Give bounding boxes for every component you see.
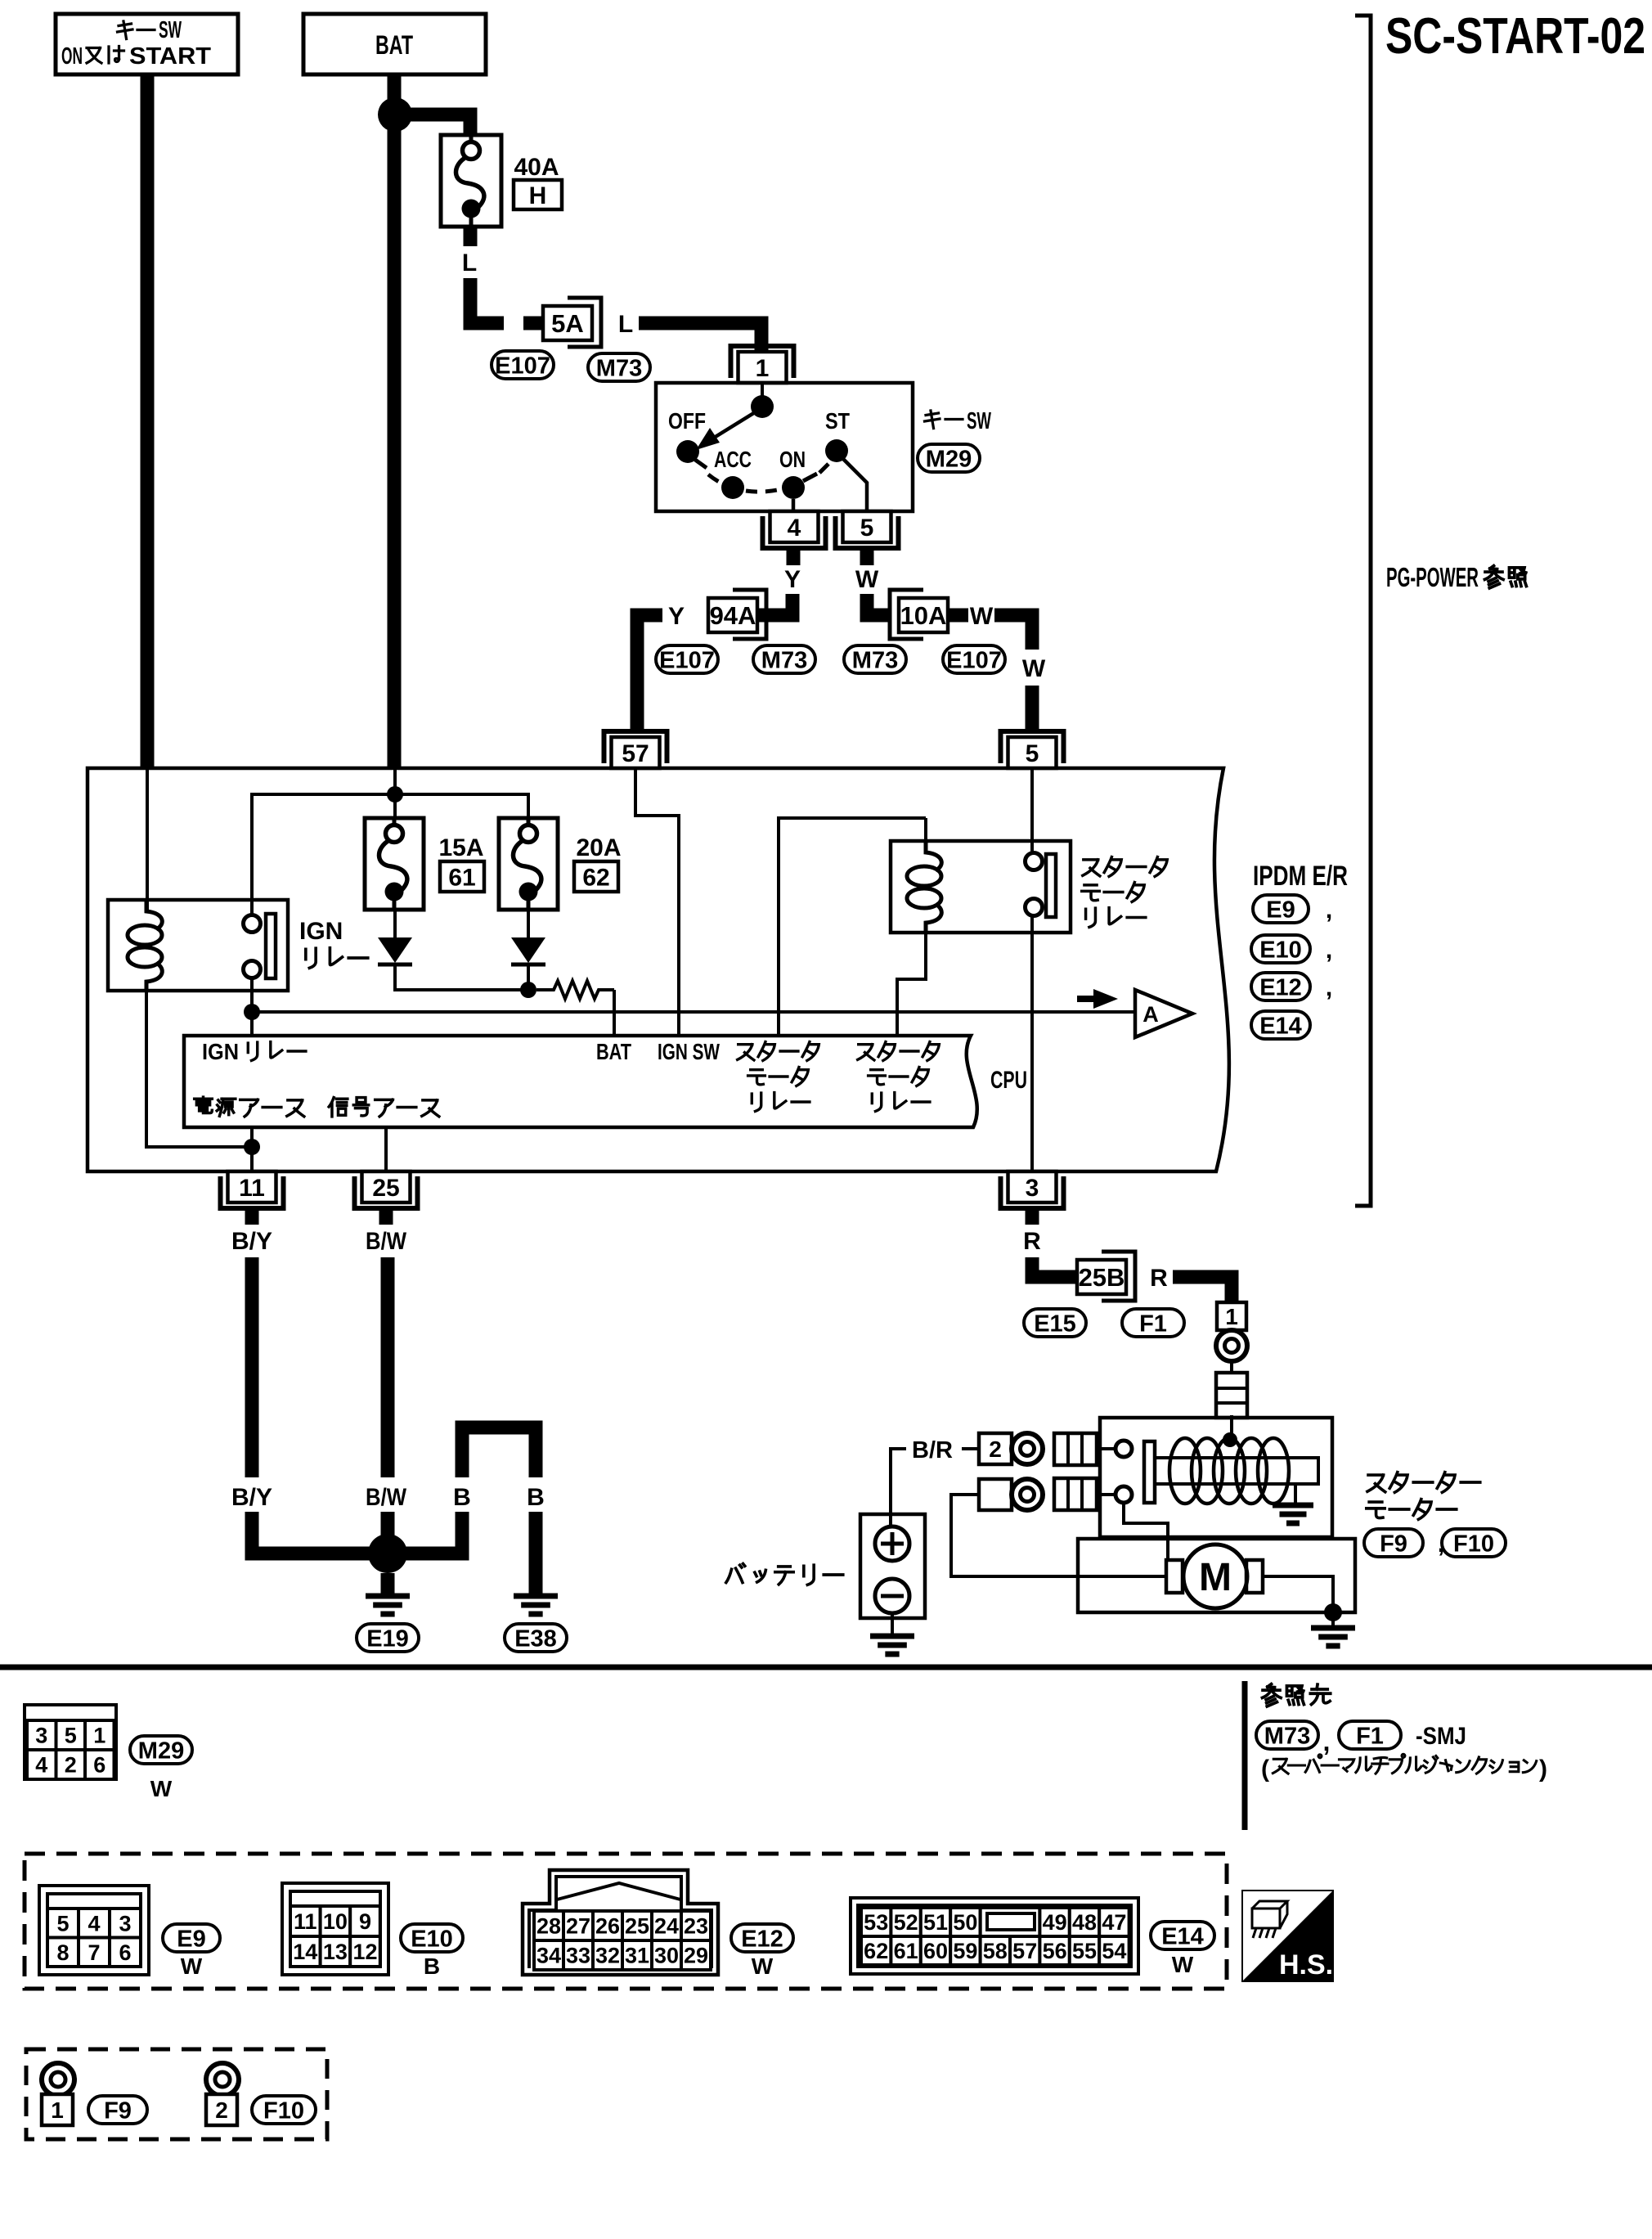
svg-text:56: 56 — [1043, 1939, 1067, 1963]
wire starter relay coil bottom to CPU pin2 — [897, 933, 926, 1036]
CPU box outline — [184, 1036, 977, 1127]
connector M73 oval below 94A-right — [753, 645, 815, 673]
wire A-line across IPDM — [252, 1010, 1135, 1014]
connector M73 oval below 5A-right — [588, 353, 650, 381]
svg-text:62: 62 — [582, 864, 609, 891]
label 40A — [514, 154, 559, 181]
wire stub left of 5A — [523, 317, 544, 330]
svg-text:M73: M73 — [596, 355, 642, 381]
svg-text:SC-START-02: SC-START-02 — [1385, 8, 1645, 65]
svg-text:60: 60 — [923, 1939, 948, 1963]
starter connector hatched (row1) — [1054, 1433, 1097, 1465]
svg-text:3: 3 — [119, 1911, 131, 1936]
connector pin 3 under IPDM — [1001, 1171, 1064, 1208]
label B/W below pin 25 — [366, 1228, 407, 1255]
solenoid plunger bar — [1144, 1441, 1155, 1503]
wire fuse 15A to diode D1 — [393, 910, 397, 937]
wire BAT down to IPDM (thick) — [388, 74, 402, 768]
svg-text:ACC: ACC — [714, 447, 752, 472]
starter pin 2 box — [979, 1433, 1012, 1464]
wire solenoid terminal 2 to motor — [1124, 1503, 1168, 1560]
svg-text:E15: E15 — [1034, 1311, 1076, 1337]
wire IGN relay coil to ground rail — [146, 991, 245, 1147]
wire B/W down — [381, 1257, 395, 1477]
svg-text:F10: F10 — [1453, 1531, 1494, 1557]
svg-text:5: 5 — [860, 515, 874, 542]
svg-text:SW: SW — [967, 408, 991, 434]
label B/R — [912, 1437, 953, 1463]
label W on vertical wire — [1022, 655, 1046, 682]
svg-text:-SMJ: -SMJ — [1416, 1723, 1466, 1750]
wire 10A to corner down — [994, 615, 1032, 650]
wire resistor to CPU BAT — [613, 990, 616, 1036]
label E14 color W — [1172, 1952, 1194, 1977]
junction dot A-line — [244, 1004, 260, 1020]
dashed arc OFF to ACC — [708, 474, 726, 485]
svg-text:6: 6 — [93, 1753, 105, 1778]
wire motor ground stem — [1331, 1612, 1335, 1628]
svg-text:W: W — [1172, 1952, 1194, 1977]
label CPU pin starter motor relay 2 — [858, 1042, 940, 1112]
svg-text:6: 6 — [119, 1940, 131, 1965]
rotor contact dot — [751, 395, 774, 418]
solenoid core bar — [1155, 1458, 1318, 1484]
wire battery minus to ground — [891, 1613, 894, 1636]
junction dot on solenoid coil — [1223, 1432, 1237, 1447]
svg-text:8: 8 — [56, 1940, 69, 1965]
contact ACC dot — [721, 476, 744, 499]
svg-text:E10: E10 — [1259, 937, 1302, 963]
wire B right leg to ground — [529, 1512, 543, 1594]
label battery — [726, 1564, 843, 1585]
wire IPDM pin5 to starter relay contact — [1030, 768, 1034, 853]
dashed box F9 F10 — [26, 2049, 327, 2139]
connector 5A (fusible link) — [543, 298, 601, 347]
ON contact tail — [803, 474, 817, 481]
wire stub below pin 25 — [379, 1208, 393, 1225]
motor brush rect right — [1246, 1560, 1263, 1593]
svg-text:B/W: B/W — [366, 1484, 407, 1511]
label B/Y below pin 11 — [231, 1228, 272, 1255]
svg-text:11: 11 — [294, 1909, 317, 1934]
ring terminal F9 — [42, 2063, 74, 2096]
svg-text:B: B — [453, 1484, 471, 1511]
comma after M73 — [1323, 1727, 1331, 1756]
svg-text:E107: E107 — [946, 647, 1002, 673]
svg-text:Y: Y — [668, 603, 685, 630]
svg-text:30: 30 — [654, 1944, 679, 1968]
svg-text:25: 25 — [625, 1914, 649, 1939]
svg-text:94A: 94A — [710, 601, 756, 630]
svg-text:M73: M73 — [761, 647, 807, 673]
svg-text:20A: 20A — [576, 834, 621, 861]
label IGN relay — [299, 918, 368, 968]
svg-text:2: 2 — [215, 2097, 228, 2123]
svg-text:1: 1 — [756, 355, 770, 382]
OFF contact tail — [695, 460, 707, 468]
svg-text:F10: F10 — [263, 2097, 304, 2124]
svg-text:10: 10 — [323, 1909, 348, 1934]
solenoid internal ground wire — [1294, 1484, 1297, 1505]
wire 25B to starter pin 1 — [1173, 1277, 1232, 1302]
connector M29 oval (bottom) — [130, 1736, 192, 1764]
wire row2 to motor box — [951, 1495, 1166, 1576]
connector pin 57 on IPDM — [604, 731, 667, 768]
starter connector hatched (row2) — [1054, 1478, 1097, 1510]
svg-text:2: 2 — [989, 1436, 1002, 1462]
dashed link ACC to ON — [746, 489, 781, 492]
ring terminal F10 — [206, 2063, 239, 2096]
connector E12 oval (bottom) — [731, 1924, 793, 1952]
svg-text:52: 52 — [894, 1910, 918, 1935]
label starter motor relay (right of relay) — [1082, 857, 1168, 928]
svg-text:13: 13 — [323, 1940, 348, 1964]
svg-text:IPDM E/R: IPDM E/R — [1253, 861, 1348, 892]
svg-text:R: R — [1150, 1265, 1168, 1292]
ground symbol E19 — [366, 1596, 410, 1614]
connector F10 oval — [1442, 1529, 1506, 1557]
svg-text:W: W — [1022, 655, 1046, 682]
connector M29 oval — [918, 444, 980, 472]
wire IGN relay contact to junction A — [250, 978, 254, 1036]
connector E19 oval — [357, 1624, 419, 1652]
svg-text:M29: M29 — [138, 1738, 184, 1764]
label B right leg — [527, 1484, 545, 1511]
contact OFF dot — [676, 440, 699, 463]
label super multiple junction — [1261, 1754, 1547, 1783]
label R below pin 3 — [1023, 1228, 1041, 1255]
svg-text:F9: F9 — [1380, 1531, 1407, 1557]
svg-text:H: H — [529, 182, 547, 209]
label starter motor (right) — [1367, 1472, 1480, 1520]
starter pin blank box row2 — [979, 1479, 1012, 1510]
svg-text:61: 61 — [448, 864, 475, 891]
connector face M29 grid — [25, 1705, 116, 1779]
svg-text:53: 53 — [864, 1910, 888, 1935]
label IPDM E/R right side — [1253, 861, 1348, 892]
wire branch junction to fuse 40A — [395, 115, 470, 144]
wire stub below fuse 40A — [464, 227, 478, 246]
svg-text:24: 24 — [654, 1914, 679, 1939]
wire motor to right wall — [1263, 1576, 1333, 1612]
ST contact tail — [819, 464, 828, 473]
svg-text:B/R: B/R — [912, 1437, 953, 1463]
svg-text:R: R — [1023, 1228, 1041, 1255]
label ST — [825, 408, 850, 434]
label R right of 25B — [1150, 1265, 1168, 1292]
contact ST dot — [825, 439, 848, 462]
label CPU pin starter motor relay 1 — [738, 1042, 819, 1112]
fuse label box 62 — [574, 861, 618, 892]
svg-text:W: W — [150, 1776, 173, 1801]
label 15A — [438, 834, 483, 861]
node box key-SW ON/START source — [56, 14, 238, 74]
starter pin 1 box — [1217, 1302, 1246, 1330]
svg-text:,: , — [1326, 897, 1332, 924]
ground symbol motor — [1311, 1628, 1355, 1646]
label L right of 5A — [618, 311, 633, 338]
connector E107 oval below 5A-left — [492, 351, 554, 379]
svg-text:31: 31 — [625, 1944, 649, 1968]
label W below pin 5 — [855, 566, 879, 593]
label CPU — [990, 1067, 1027, 1094]
connector pin 25 under IPDM — [355, 1171, 418, 1208]
svg-text:4: 4 — [788, 515, 801, 542]
svg-text:,: , — [1323, 1727, 1331, 1756]
svg-text:29: 29 — [684, 1944, 708, 1968]
IPDM E/R box outline — [88, 768, 1229, 1171]
svg-text:A: A — [1142, 1002, 1159, 1027]
svg-text:E12: E12 — [741, 1926, 783, 1952]
svg-text:E19: E19 — [366, 1625, 409, 1652]
junction dot BAT/fuse branch — [378, 97, 412, 132]
IGN relay contact bar — [266, 914, 276, 978]
wire B/Y to ground junction — [252, 1512, 388, 1553]
label reference-destination — [1262, 1684, 1330, 1706]
wire starter pin1 into solenoid — [1230, 1415, 1233, 1436]
svg-text:54: 54 — [1102, 1939, 1126, 1963]
svg-text:5A: 5A — [551, 309, 584, 338]
svg-text:32: 32 — [595, 1944, 620, 1968]
starter motor relay box — [891, 841, 1071, 933]
starter solenoid box — [1100, 1418, 1332, 1537]
svg-text:49: 49 — [1043, 1910, 1067, 1935]
svg-text:1: 1 — [1225, 1304, 1238, 1329]
svg-text:3: 3 — [35, 1724, 47, 1748]
junction dot diode rail — [520, 982, 536, 998]
svg-text:34: 34 — [536, 1944, 561, 1968]
connector F10 oval (bottom) — [252, 2096, 316, 2124]
svg-text:40A: 40A — [514, 154, 559, 181]
connector 10A (fusible link) — [890, 590, 948, 639]
svg-text:(: ( — [1261, 1756, 1269, 1783]
resistor to CPU BAT pin — [536, 981, 614, 999]
wire junction to B loop — [388, 1512, 462, 1553]
svg-text:28: 28 — [536, 1914, 561, 1939]
svg-text:ST: ST — [825, 408, 850, 434]
connector pin 5 on IPDM — [1001, 731, 1064, 768]
svg-text:E107: E107 — [495, 353, 550, 379]
starter relay contact circles — [1026, 853, 1043, 916]
wire fuse 20A to diode D2 — [527, 910, 530, 937]
wire D2 down to junction — [527, 966, 530, 990]
svg-text:10A: 10A — [900, 601, 947, 630]
svg-text:BAT: BAT — [375, 30, 413, 60]
wire solenoid terminal 1 to wall — [1100, 1447, 1116, 1450]
connector E10 oval — [1251, 935, 1332, 964]
label E9 color W — [181, 1954, 203, 1979]
svg-text:E14: E14 — [1259, 1013, 1302, 1039]
wire stub below pin 11 — [245, 1208, 259, 1225]
wire stub right of 10A — [948, 609, 968, 623]
svg-text:B/Y: B/Y — [231, 1228, 272, 1255]
connector E107 oval below 10A-right — [943, 645, 1005, 673]
svg-text:OFF: OFF — [668, 408, 706, 434]
svg-text:M73: M73 — [1264, 1723, 1310, 1749]
label CPU pin IGN relay — [202, 1039, 306, 1064]
svg-text:5: 5 — [56, 1911, 69, 1936]
wire stub below pin 4 (thick) — [787, 547, 801, 565]
wire ring to starter connector — [1230, 1361, 1233, 1373]
fuse label box 61 — [440, 861, 484, 892]
connector pin 4 of key switch — [763, 511, 826, 548]
wire B/Y down — [245, 1257, 259, 1477]
svg-text:33: 33 — [566, 1944, 590, 1968]
svg-text:51: 51 — [923, 1910, 948, 1935]
motor M circle — [1183, 1544, 1247, 1608]
connector E107 oval below 94A-left — [656, 645, 718, 673]
svg-text:B/Y: B/Y — [231, 1484, 272, 1511]
wire IPDM pin57 to CPU IGN SW — [635, 768, 679, 1036]
connector E14 oval — [1251, 1011, 1310, 1039]
wire ON dot to pin 4 — [792, 499, 796, 511]
label 20A — [576, 834, 621, 861]
svg-text:START: START — [129, 43, 211, 70]
junction dot motor ground — [1324, 1603, 1342, 1621]
reference panel divider — [1242, 1681, 1248, 1830]
svg-text:4: 4 — [88, 1911, 100, 1936]
starter relay contact bar — [1046, 854, 1056, 917]
triangle node A — [1135, 990, 1192, 1037]
svg-text:E14: E14 — [1161, 1923, 1204, 1949]
wire starter relay contact to pin 3 — [1030, 916, 1034, 1171]
connector M73 oval (reference) — [1256, 1721, 1318, 1749]
wire B loop over — [462, 1427, 536, 1477]
svg-text:M29: M29 — [926, 446, 972, 472]
svg-text:L: L — [618, 311, 633, 338]
connector F9 oval (bottom) — [88, 2096, 147, 2124]
connector E14 oval (bottom) — [1151, 1922, 1214, 1949]
svg-text:W: W — [752, 1954, 774, 1979]
connector pin 5 of key switch — [836, 511, 899, 548]
wire battery plus to B/R — [891, 1449, 906, 1526]
svg-text:23: 23 — [684, 1914, 708, 1939]
label B/W lower — [366, 1484, 407, 1511]
label ON — [779, 447, 806, 472]
connector face E12 — [523, 1870, 718, 1975]
svg-text:9: 9 — [359, 1909, 371, 1934]
svg-text:F1: F1 — [1356, 1723, 1384, 1749]
ground symbol inside solenoid — [1273, 1505, 1313, 1523]
label E12 color W — [752, 1954, 774, 1979]
label CPU pin power ground — [195, 1097, 304, 1117]
svg-text:IGN: IGN — [299, 918, 343, 945]
label B left leg — [453, 1484, 471, 1511]
solenoid terminal circles — [1116, 1441, 1132, 1503]
label CPU pin BAT — [596, 1039, 631, 1064]
wire D1 to rail — [395, 966, 528, 990]
svg-text:58: 58 — [983, 1939, 1008, 1963]
connector M73 oval below 10A-left — [844, 645, 906, 673]
ring terminal row2 — [1012, 1479, 1043, 1510]
wire E19 ground stem — [381, 1573, 395, 1596]
junction dot power-ground — [244, 1139, 260, 1155]
svg-text:27: 27 — [566, 1914, 590, 1939]
svg-text:25B: 25B — [1079, 1263, 1125, 1292]
svg-text:B: B — [527, 1484, 545, 1511]
H.S. logo — [1242, 1891, 1333, 1981]
label -SMJ — [1416, 1723, 1466, 1750]
IGN relay coil — [128, 900, 162, 991]
connector E9 oval — [1253, 895, 1332, 924]
battery plus terminal — [875, 1526, 909, 1561]
connector 94A (fusible link) — [708, 590, 766, 639]
connector pin 11 under IPDM — [221, 1171, 284, 1208]
svg-text:26: 26 — [595, 1914, 620, 1939]
svg-text:E9: E9 — [1266, 897, 1295, 923]
svg-text:57: 57 — [622, 740, 649, 767]
label CPU pin signal ground — [329, 1098, 439, 1117]
svg-text:,: , — [1326, 974, 1332, 1001]
connector pin 1 of key switch — [731, 346, 794, 383]
label B/Y lower — [231, 1484, 272, 1511]
svg-text:2: 2 — [65, 1753, 77, 1778]
label E10 color B — [424, 1954, 440, 1979]
wire starter relay coil top to CPU pin1 — [779, 818, 926, 1036]
svg-text:IGN SW: IGN SW — [658, 1039, 720, 1064]
svg-text:M: M — [1199, 1556, 1232, 1599]
label CPU pin IGN SW — [658, 1039, 720, 1064]
connector E12 oval — [1251, 973, 1332, 1001]
junction dot BAT inside IPDM — [387, 786, 403, 803]
separator line — [0, 1665, 1652, 1670]
svg-text:H.S.: H.S. — [1279, 1949, 1333, 1980]
wire 5A to key switch pin 1 (thick) — [639, 323, 761, 353]
wire B/W to ground junction — [381, 1512, 395, 1553]
starter relay coil — [907, 841, 941, 933]
key switch box outline — [656, 383, 913, 511]
connector face E9 — [39, 1886, 149, 1975]
svg-text:59: 59 — [953, 1939, 977, 1963]
svg-text:W: W — [970, 603, 994, 630]
diode D1 — [378, 937, 412, 964]
svg-text:W: W — [855, 566, 879, 593]
svg-text:5: 5 — [65, 1724, 77, 1748]
wire key-SW into IGN relay coil — [146, 768, 149, 911]
IGN relay box — [108, 900, 288, 991]
svg-text:E9: E9 — [177, 1926, 205, 1952]
connector face E14 — [851, 1898, 1138, 1974]
motor box — [1078, 1539, 1355, 1612]
svg-text:E38: E38 — [514, 1625, 557, 1652]
connector F1 oval — [1122, 1309, 1184, 1337]
svg-text:5: 5 — [1026, 740, 1039, 767]
solenoid coil loops — [1169, 1438, 1289, 1504]
motor brush rect left — [1166, 1560, 1183, 1593]
svg-text:E12: E12 — [1259, 974, 1302, 1000]
wire W from pin5 to 10A — [867, 594, 891, 615]
svg-text:): ) — [1539, 1756, 1547, 1783]
wire CPU signal ground to pin 25 — [384, 1127, 388, 1171]
wire stub below pin 5 (thick) — [860, 547, 874, 565]
connector E15 oval — [1024, 1309, 1086, 1337]
wire pin1 to rotor contact — [761, 383, 764, 407]
label OFF — [668, 408, 706, 434]
connector F1 oval (reference) — [1339, 1721, 1401, 1749]
connector E10 oval (bottom) — [401, 1924, 463, 1952]
svg-text:55: 55 — [1072, 1939, 1097, 1963]
svg-text:3: 3 — [1026, 1175, 1039, 1202]
label Y below pin 4 — [784, 566, 801, 593]
fuse 40A H (fusible link) — [441, 135, 501, 227]
svg-text:PG-POWER: PG-POWER — [1386, 562, 1479, 592]
battery minus terminal — [875, 1579, 909, 1613]
svg-text:62: 62 — [864, 1939, 888, 1963]
fuse 20A 62 — [499, 818, 558, 910]
ring terminal below pin 1 — [1216, 1330, 1247, 1361]
svg-text:L: L — [462, 250, 477, 277]
connector E38 oval — [505, 1624, 567, 1652]
